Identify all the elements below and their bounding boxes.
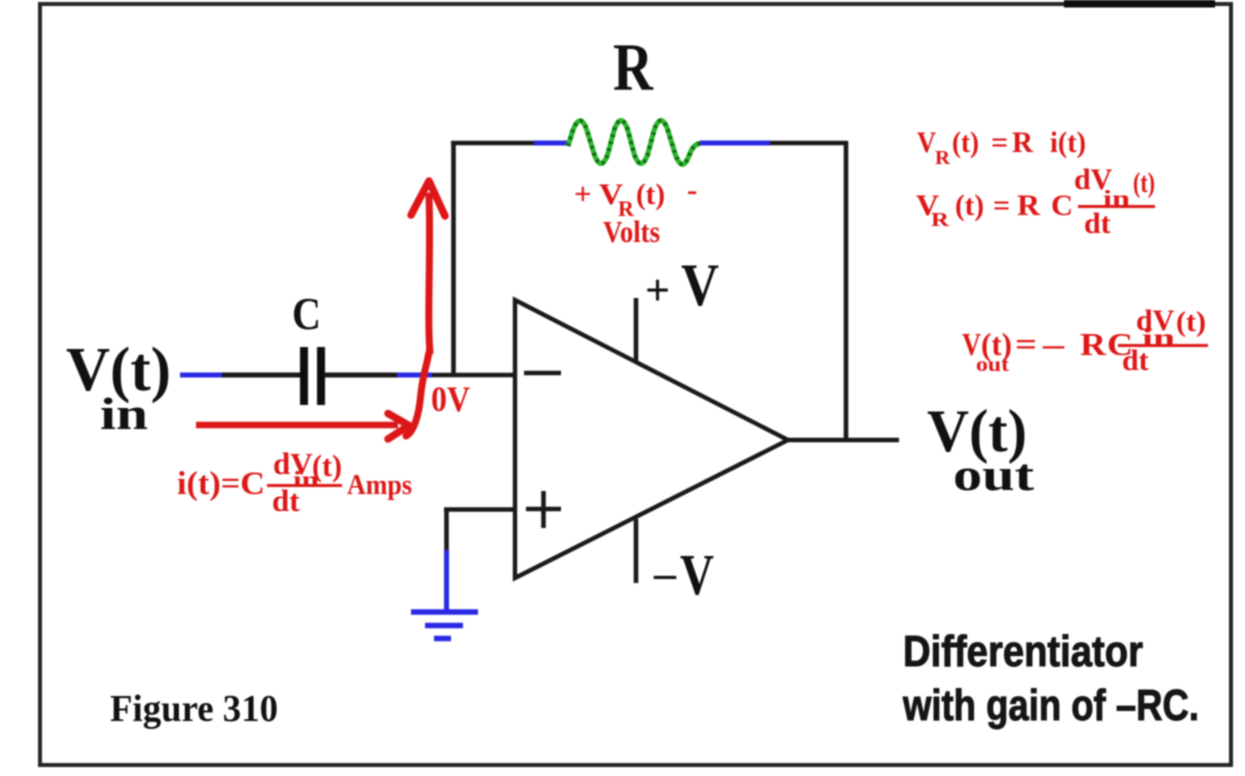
red annotation: current arrow horizontal with curved riser and up arrow [196, 181, 445, 439]
op-amp U1 triangle [515, 300, 788, 578]
svg-text:i(t): i(t) [1050, 126, 1086, 159]
svg-text:Amps: Amps [347, 469, 412, 501]
wire: feedback left vertical [451, 141, 456, 377]
wire: top feedback blue segment right of resistor [700, 141, 770, 146]
svg-text:(t): (t) [955, 189, 984, 222]
svg-text:R: R [935, 147, 951, 169]
svg-text:Volts: Volts [603, 214, 660, 249]
op-amp inverting input minus sign [524, 371, 561, 376]
svg-text:=: = [991, 126, 1008, 159]
caption Differentiator with gain of -RC. [902, 627, 1199, 730]
svg-text:–: – [653, 549, 677, 598]
svg-text:=: = [993, 189, 1010, 222]
wire: node to op-amp inverting input [432, 373, 517, 378]
svg-text:–: – [1042, 326, 1066, 362]
svg-text:+: + [645, 266, 670, 315]
red equation VR(t) = R i(t) [917, 126, 1086, 169]
wire: op-amp output [788, 438, 899, 443]
resistor R dark dash overlay [568, 121, 700, 165]
svg-text:dt: dt [1084, 207, 1111, 240]
red curve through 0V node [406, 350, 430, 436]
wire: input blue segment at Vin [180, 373, 222, 378]
svg-text:C: C [1051, 189, 1073, 222]
red equation VR(t) = R C dVin(t)/dt [916, 163, 1155, 240]
red current arrow shaft [196, 422, 398, 429]
svg-text:(t): (t) [981, 326, 1012, 362]
wire: non-inverting input horizontal [444, 507, 517, 512]
label + VR(t) - [574, 172, 697, 221]
wire: node blue segment (0V node) [397, 373, 432, 378]
svg-text:(t): (t) [952, 126, 979, 159]
svg-text:R: R [1017, 189, 1040, 222]
red current arrowhead [388, 414, 409, 440]
svg-text:-: - [687, 172, 697, 207]
red vertical arrow shaft [429, 196, 430, 352]
wire: top feedback blue segment left of resistor [534, 141, 570, 146]
svg-text:R: R [931, 209, 950, 231]
wire: ground vertical blue part [444, 550, 449, 611]
svg-text:V: V [681, 252, 719, 318]
wire: feedback right vertical [844, 141, 849, 440]
svg-text:i(t)=C: i(t)=C [177, 466, 265, 502]
svg-text:with gain of –RC.: with gain of –RC. [902, 681, 1199, 730]
svg-text:(t): (t) [1176, 307, 1206, 338]
svg-text:C: C [292, 288, 321, 339]
svg-text:dt: dt [272, 483, 300, 518]
capacitor C1 left plate [300, 347, 308, 405]
svg-text:R: R [1080, 326, 1107, 362]
ground symbol [411, 612, 478, 639]
svg-text:V: V [917, 126, 936, 159]
red equation i(t)=C dVin(t)/dt Amps [177, 446, 412, 518]
svg-text:in: in [100, 388, 148, 439]
wire: top feedback horizontal (right black part) [770, 141, 848, 146]
svg-text:Differentiator: Differentiator [903, 627, 1143, 676]
op-amp +V supply stem [634, 298, 639, 361]
svg-text:+: + [574, 176, 592, 211]
wire: capacitor to node black [324, 373, 397, 378]
svg-text:0V: 0V [431, 379, 470, 419]
op-amp non-inverting input plus sign [526, 491, 561, 528]
svg-text:(t): (t) [1133, 168, 1155, 199]
resistor R (green squiggle) [568, 121, 700, 165]
svg-text:R: R [1012, 126, 1033, 159]
wire: top feedback horizontal (left black part) [451, 141, 534, 146]
svg-text:V: V [680, 542, 714, 607]
capacitor C1 right plate [317, 347, 325, 405]
svg-text:R: R [613, 29, 654, 105]
screenshot artifact bar (top-right) [1064, 0, 1215, 8]
red equation Vout(t) = -RC dVin(t)/dt [962, 304, 1208, 377]
red vertical arrowhead [411, 181, 445, 216]
wire: ground vertical black part [444, 510, 449, 553]
op-amp -V supply stem [634, 519, 639, 583]
wire: input black to capacitor [222, 373, 300, 378]
svg-text:(t): (t) [312, 448, 342, 483]
svg-text:=: = [1015, 326, 1037, 362]
svg-text:out: out [953, 449, 1035, 500]
svg-text:Figure 310: Figure 310 [110, 688, 278, 730]
label -V [653, 542, 714, 607]
svg-text:(t): (t) [636, 178, 665, 211]
svg-text:dt: dt [1122, 344, 1149, 377]
label +V [645, 252, 719, 318]
